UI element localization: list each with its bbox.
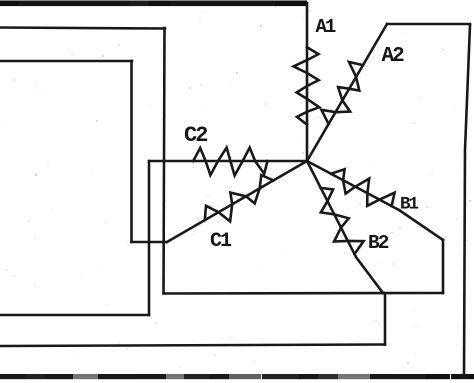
wire C2 vertical x=149 bbox=[148, 161, 151, 315]
wire B1 riser x=443 bbox=[442, 240, 445, 293]
winding A2 zigzag bbox=[321, 62, 363, 124]
svg-text:C2: C2 bbox=[184, 123, 207, 148]
svg-text:B1: B1 bbox=[400, 195, 419, 215]
wire bottom horizontal y=345 bbox=[0, 345, 385, 347]
winding A2 lead bbox=[307, 24, 387, 161]
winding C1 lead bbox=[167, 161, 307, 242]
winding B2 zigzag bbox=[321, 188, 364, 254]
svg-text:A1: A1 bbox=[316, 16, 336, 38]
wire B1 lead corner bbox=[399, 210, 443, 240]
wire horizontal y=293 bbox=[164, 292, 444, 295]
winding B1 lead bbox=[307, 161, 399, 210]
wire horizontal y=242 bbox=[132, 241, 168, 244]
wire horizontal y=315 bbox=[0, 314, 149, 317]
wire vertical riser x=131 bbox=[130, 61, 133, 242]
wire A2 terminal top bbox=[387, 23, 470, 26]
right bus wire bbox=[464, 25, 470, 376]
winding C2 lead bbox=[149, 160, 307, 163]
winding C1 zigzag bbox=[205, 175, 274, 221]
winding A1 lead bbox=[306, 3, 309, 161]
svg-text:A2: A2 bbox=[382, 45, 405, 68]
wire B2 drop x=385 bbox=[384, 293, 387, 345]
svg-text:B2: B2 bbox=[368, 232, 389, 254]
svg-text:C1: C1 bbox=[210, 230, 232, 253]
wire terminal-2 horizontal bbox=[0, 60, 132, 63]
winding C2 zigzag bbox=[193, 148, 267, 176]
wire terminal-1 horizontal bbox=[0, 28, 165, 29]
winding B1 zigzag bbox=[331, 169, 395, 206]
bottom bus bar bbox=[0, 374, 474, 379]
wire vertical riser x=164 bbox=[164, 28, 165, 293]
winding A1 zigzag bbox=[294, 47, 320, 125]
top bus bar bbox=[0, 1, 307, 7]
winding B2 lead bbox=[307, 161, 383, 293]
